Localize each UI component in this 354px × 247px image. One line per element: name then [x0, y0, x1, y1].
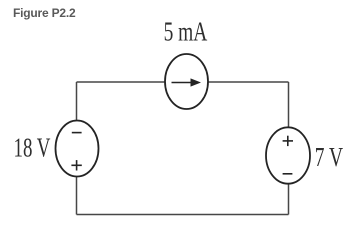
wire: right vertical [288, 82, 290, 215]
svg-text:18 V: 18 V [14, 133, 51, 163]
voltage source V1 (18 V) circle [56, 121, 99, 177]
wire: top (left node to right node) [77, 81, 289, 83]
V2 plus sign (top) [283, 136, 293, 146]
V2 minus sign (bottom) [283, 173, 293, 175]
wire: left vertical [76, 82, 78, 215]
V1 minus sign (top) [72, 132, 82, 134]
svg-text:7 V: 7 V [315, 143, 343, 173]
V1 plus sign (bottom) [71, 160, 81, 170]
voltage source V2 (7 V) circle [266, 127, 310, 183]
current source I1 arrow [172, 78, 202, 86]
svg-text:5 mA: 5 mA [164, 18, 208, 48]
figure caption "Figure P2.2" [13, 6, 76, 20]
wire: bottom [77, 214, 289, 216]
current source I1 (5 mA) circle [165, 54, 208, 109]
